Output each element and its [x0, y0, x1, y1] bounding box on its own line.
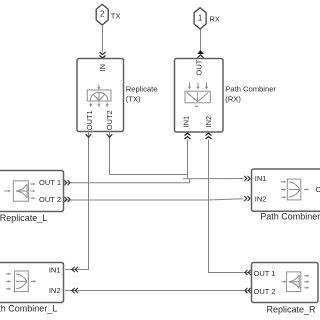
svg-text:IN1: IN1	[181, 116, 190, 128]
chevron out of RL OUT1	[64, 180, 70, 185]
svg-text:OUT 2: OUT 2	[39, 195, 61, 204]
block Replicate (TX)	[77, 59, 124, 132]
svg-text:Path Combiner_L: Path Combiner_L	[0, 304, 57, 314]
block Replicate_L	[0, 171, 64, 212]
icon inside Replicate (TX)	[87, 85, 111, 108]
svg-text:OUT 1: OUT 1	[254, 269, 276, 278]
chevron into TX IN	[100, 52, 106, 58]
svg-text:OUT: OUT	[316, 185, 320, 194]
svg-text:TX: TX	[111, 11, 121, 20]
chevron into PCL IN2	[72, 288, 78, 293]
svg-text:Replicate_L: Replicate_L	[0, 213, 47, 223]
svg-text:1: 1	[198, 14, 203, 23]
chevron into PCR IN1	[244, 176, 250, 181]
wire: port 2 to Replicate(TX) IN	[102, 25, 104, 52]
svg-text:IN2: IN2	[255, 195, 267, 204]
chevron out of RX OUT	[197, 50, 204, 58]
svg-text:IN1: IN1	[255, 174, 267, 183]
svg-text:OUT: OUT	[194, 59, 203, 75]
svg-text:OUT 2: OUT 2	[254, 287, 276, 296]
svg-text:(RX): (RX)	[225, 95, 241, 104]
icon inside Replicate_R	[282, 272, 310, 292]
svg-text:RX: RX	[210, 14, 220, 23]
block Path Combiner_L	[0, 263, 64, 303]
wire: TX OUT1 down/left to Path Combiner_L IN1	[65, 132, 89, 270]
icon inside Path Combiner_L	[6, 271, 36, 292]
svg-text:OUT 1: OUT 1	[39, 178, 61, 187]
svg-text:OUT2: OUT2	[105, 110, 114, 130]
block Replicate_R	[252, 263, 319, 303]
icon inside Path Combiner (RX)	[185, 83, 210, 107]
wire: Replicate_L OUT2 to Path Combiner_R IN2	[64, 199, 244, 200]
svg-text:IN: IN	[98, 64, 107, 72]
wire: Replicate_R OUT2 left to Path Combiner_L IN2	[65, 290, 252, 292]
chevron into PCL IN1	[72, 267, 78, 272]
block Path Combiner (RX)	[175, 59, 224, 133]
wire: Replicate_R OUT1 left/up to RX IN2	[209, 140, 252, 273]
icon inside Path Combiner_R	[281, 179, 309, 200]
block Path Combiner_R	[252, 169, 320, 211]
svg-text:2: 2	[100, 10, 105, 19]
wire: Path Combiner(RX) OUT to port 1	[200, 29, 202, 52]
inport hexagon 2 (TX)	[96, 4, 108, 25]
wire: junction to Path Combiner_R IN1	[183, 178, 244, 180]
wire: Replicate_L OUT1 to junction	[64, 179, 190, 183]
svg-text:IN2: IN2	[49, 286, 61, 295]
svg-text:IN1: IN1	[49, 266, 61, 275]
wire: TX OUT2 right to RX IN1 riser	[110, 132, 188, 175]
riser into RX IN1	[187, 140, 189, 180]
svg-text:Path Combiner_R: Path Combiner_R	[260, 212, 320, 222]
svg-text:Replicate: Replicate	[126, 85, 158, 94]
svg-text:Replicate_R: Replicate_R	[266, 305, 316, 315]
svg-text:(TX): (TX)	[126, 95, 141, 104]
svg-text:IN2: IN2	[204, 116, 213, 128]
svg-text:OUT1: OUT1	[85, 110, 94, 130]
outport hexagon 1 (RX)	[194, 8, 206, 29]
chevron out of RR OUT1	[245, 270, 251, 275]
icon inside Replicate_L	[4, 181, 35, 201]
svg-text:Path Combiner: Path Combiner	[225, 85, 276, 94]
